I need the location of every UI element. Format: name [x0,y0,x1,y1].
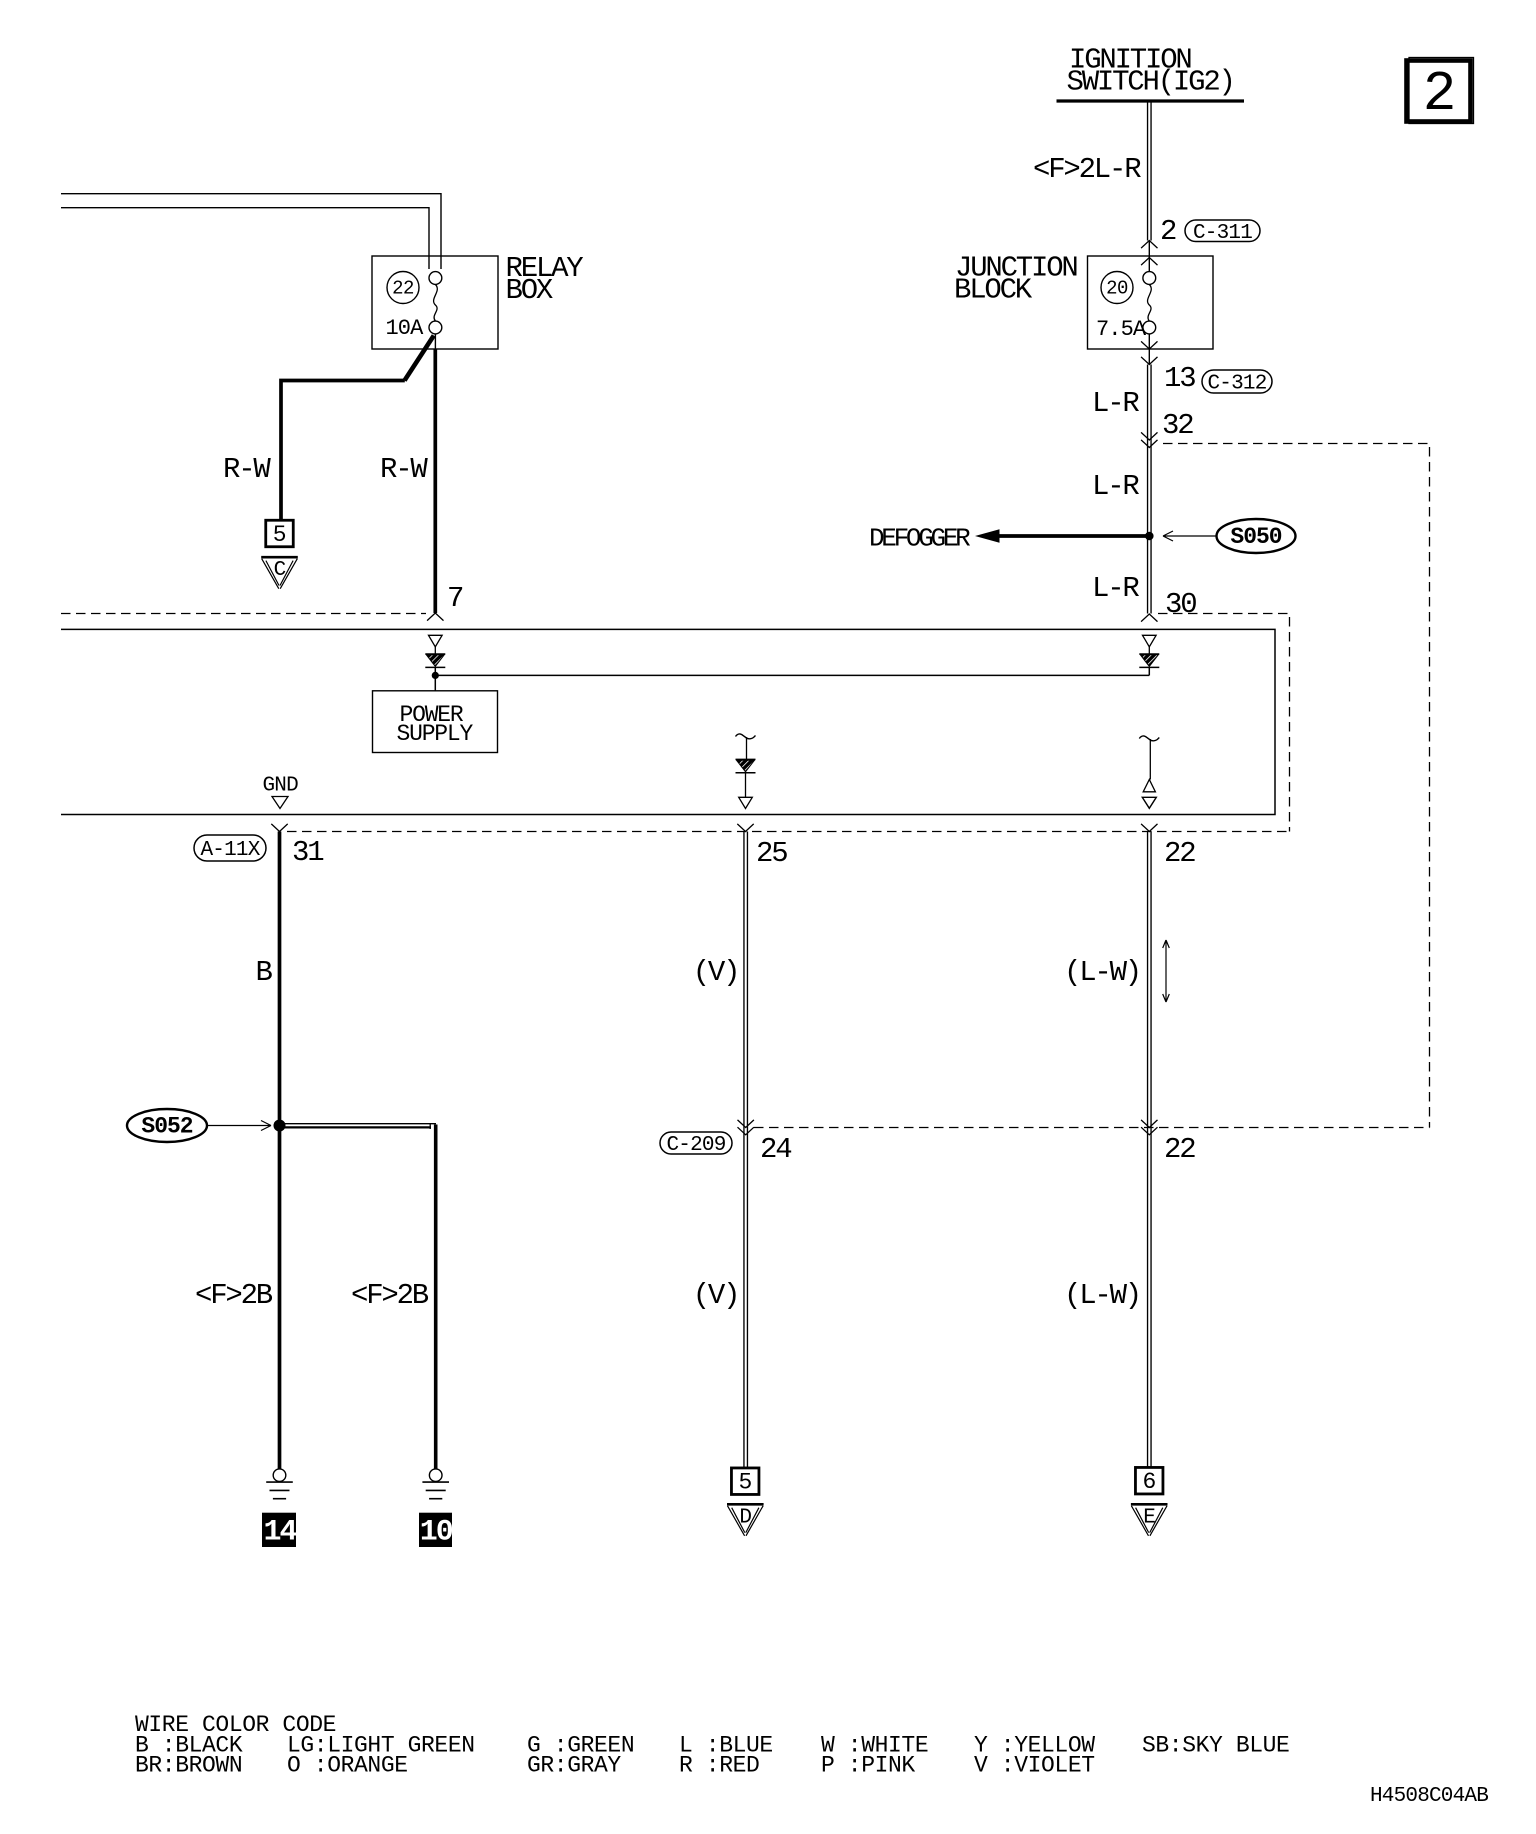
ground tag 10 [419,1513,452,1547]
splice S052 callout [127,1109,207,1142]
module input arrow at 7 [429,635,443,647]
svg-text:R-W: R-W [380,453,428,486]
svg-text:5: 5 [273,522,286,548]
dashed boundary right upper corner [1158,614,1290,832]
svg-text:14: 14 [263,1516,297,1550]
svg-text:BR:BROWN: BR:BROWN [135,1753,242,1779]
splice S052 dot [274,1120,286,1132]
svg-text:BLOCK: BLOCK [954,274,1033,307]
connector box 6 (to sheet E) [1135,1467,1163,1494]
svg-text:SB:SKY BLUE: SB:SKY BLUE [1142,1733,1289,1759]
svg-text:22: 22 [1164,837,1195,870]
module box outline [61,629,1275,814]
svg-text:S050: S050 [1230,524,1281,550]
defogger branch wire [998,534,1149,538]
svg-text:31: 31 [292,836,323,869]
svg-text:V :VIOLET: V :VIOLET [974,1753,1095,1779]
module wire 2 at 25 [745,773,747,797]
connector 7 chevron [427,613,443,621]
svg-text:L-R: L-R [1092,572,1139,605]
svg-text:24: 24 [760,1133,791,1166]
svg-text:O :ORANGE: O :ORANGE [287,1753,408,1779]
splice S050 dot [1145,532,1154,541]
module wire at 22 [1149,739,1151,780]
connector A-11X label [194,835,266,861]
sheet arrow E [1131,1503,1168,1506]
svg-text:C-312: C-312 [1207,373,1266,396]
svg-text:30: 30 [1165,588,1196,621]
svg-text:E: E [1143,1506,1155,1529]
module input arrow at 30 [1143,635,1157,647]
svg-text:22: 22 [1164,1133,1195,1166]
svg-text:B: B [256,956,273,989]
svg-text:<F>2B: <F>2B [195,1279,273,1312]
svg-text:L-R: L-R [1092,387,1139,420]
module wire at 25 [746,737,748,759]
svg-text:6: 6 [1142,1469,1155,1495]
connector crossing 32 chevrons [1141,432,1157,440]
svg-text:C: C [274,559,286,582]
connector C-312 pin 13 chevrons [1148,334,1150,365]
svg-text:C-209: C-209 [666,1134,725,1157]
svg-text:DEFOGGER: DEFOGGER [869,524,970,554]
svg-text:GR:GRAY: GR:GRAY [527,1753,621,1779]
fuse output stub [434,334,436,349]
svg-text:<F>2L-R: <F>2L-R [1033,153,1141,186]
wires from page left into relay box [61,194,441,269]
wire B [278,832,282,1469]
power bus wire [435,667,1149,690]
svg-text:2: 2 [1160,215,1176,248]
wire (F)2L-R from ignition switch [1148,103,1152,241]
wire L-W right column [1148,832,1152,1469]
wire R-W to pin 7 [433,349,437,613]
ground symbol 14 [273,1469,286,1482]
svg-text:13: 13 [1164,362,1195,395]
power supply box [373,691,498,753]
fuse 22 circled number [387,272,419,304]
connector C-209 pin 24 chevrons [738,1120,754,1128]
wire L-R junction block to module [1148,365,1152,614]
svg-text:(L-W): (L-W) [1064,1279,1140,1312]
power bus junction dot [432,672,439,679]
fuse 20 element [1143,272,1156,285]
fuse 20 circled number [1101,272,1133,304]
ground symbol 10 [429,1469,442,1482]
svg-text:10A: 10A [386,316,425,341]
sheet arrow D [727,1503,764,1506]
svg-text:R :RED: R :RED [679,1753,759,1779]
connector C-311 pin 2 chevrons [1141,241,1157,249]
svg-text:SWITCH(IG2): SWITCH(IG2) [1067,66,1234,99]
dashed boundary segment left [61,613,426,615]
svg-text:7.5A: 7.5A [1096,317,1147,342]
svg-text:(L-W): (L-W) [1064,956,1140,989]
connector 30 chevron [1141,614,1157,622]
splice S050 callout [1217,519,1296,553]
fuse 22 element [429,272,442,285]
sheet number box 2 [1409,58,1474,124]
svg-text:(V): (V) [693,956,739,989]
module connector pair at 22 [1143,780,1155,792]
dashed boundary 32 corner [1163,444,1430,1128]
connector label C-209 [660,1132,732,1154]
module symbol tilde at 22 [1139,736,1159,741]
diagonal wire from fuse 22 [405,336,434,381]
svg-text:22: 22 [392,278,414,300]
svg-text:(V): (V) [693,1279,739,1312]
module symbol tilde at 25 [736,734,756,739]
svg-text:2: 2 [1423,62,1457,126]
dashed boundary S052 level [754,1127,1430,1129]
svg-text:32: 32 [1162,409,1193,442]
connector box 5 (to sheet C) [266,520,294,547]
sheet arrow C [261,556,298,559]
svg-text:<F>2B: <F>2B [351,1279,429,1312]
svg-text:20: 20 [1106,278,1128,300]
connector label C-312 [1202,370,1272,393]
pin 25 chevron [737,824,753,832]
wire R-W left branch [281,381,405,521]
svg-text:C-311: C-311 [1193,222,1252,245]
branch wire to ground 10 [282,1124,436,1129]
svg-text:25: 25 [756,837,787,870]
svg-text:R-W: R-W [223,453,271,486]
module output diode at 25 [736,758,756,760]
dashed boundary lower [287,831,1290,833]
relay box [372,256,498,349]
connector box 5 (to sheet D) [731,1468,759,1495]
svg-text:D: D [739,1506,751,1529]
svg-text:L-R: L-R [1092,470,1139,503]
svg-text:H4508C04AB: H4508C04AB [1370,1785,1488,1808]
connector crossing 22 chevrons [1141,1120,1157,1128]
svg-text:5: 5 [738,1470,751,1496]
pin 31 chevron [271,824,287,832]
svg-text:SUPPLY: SUPPLY [397,721,474,747]
connector label C-311 [1185,220,1260,242]
junction block box [1088,256,1214,349]
svg-text:GND: GND [263,775,299,798]
svg-text:7: 7 [447,582,463,615]
gnd arrow triangle [272,797,288,809]
ground tag 14 [262,1513,296,1547]
svg-text:P :PINK: P :PINK [821,1753,915,1779]
module output arrow at 25 [739,797,753,808]
svg-text:10: 10 [420,1516,453,1550]
pin 22 chevron [1141,824,1157,832]
svg-text:S052: S052 [141,1114,192,1140]
svg-text:A-11X: A-11X [200,839,260,862]
wire V middle column [744,832,748,1469]
two-way arrow [1163,940,1170,1002]
svg-text:BOX: BOX [506,274,553,307]
